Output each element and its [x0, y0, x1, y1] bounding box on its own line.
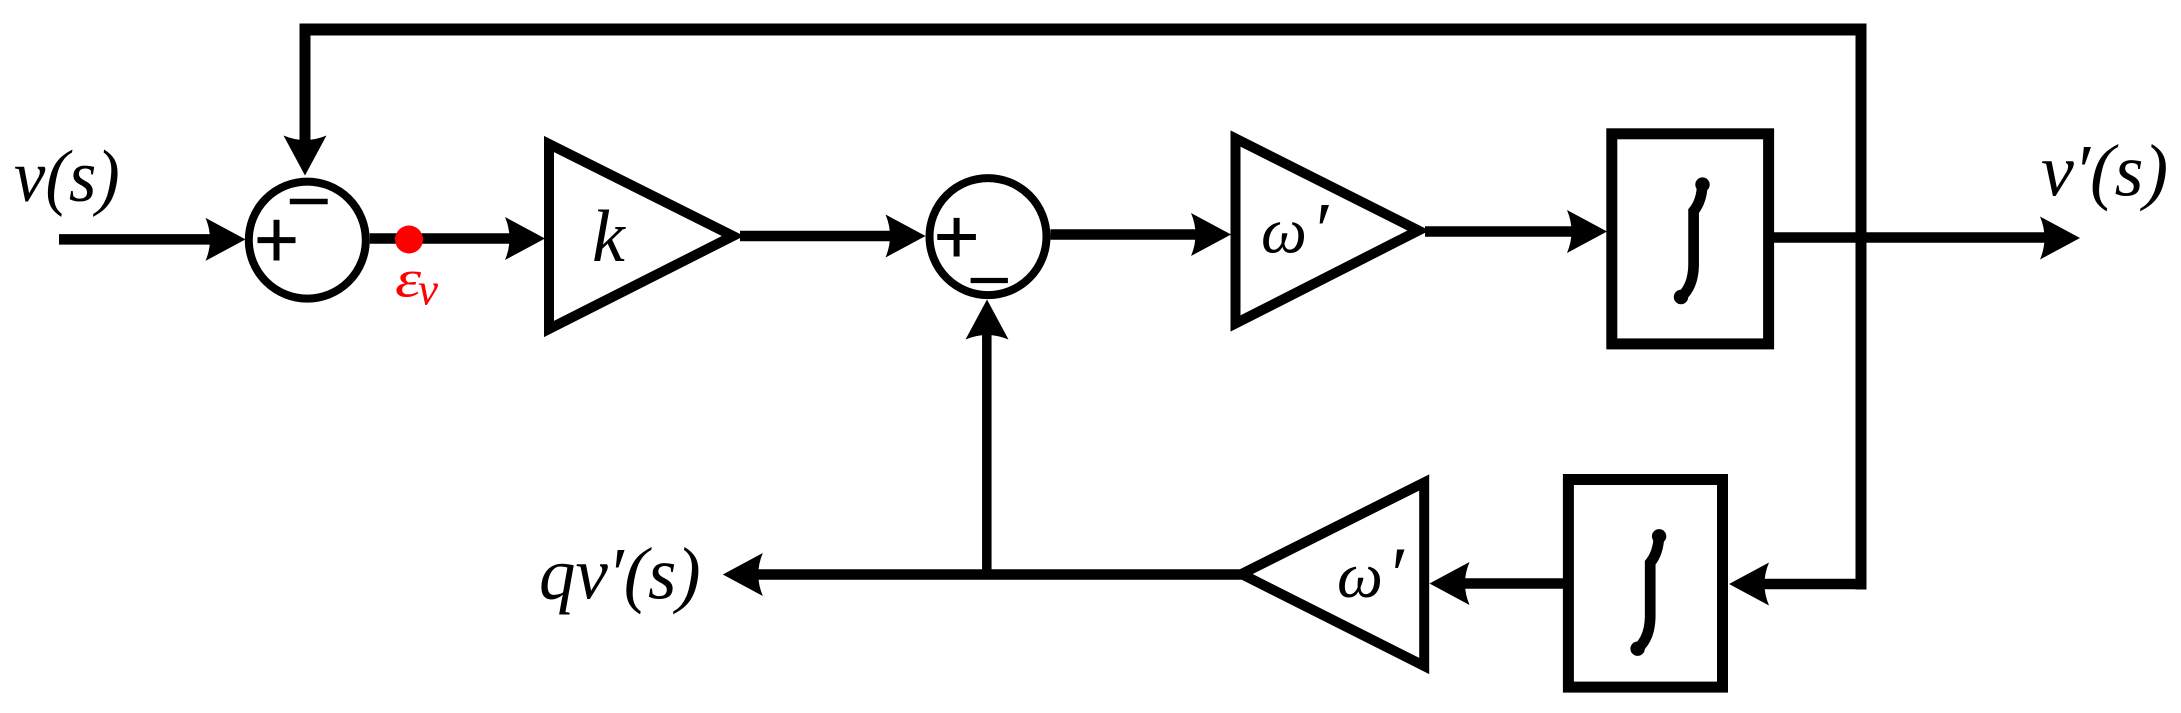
wire: S1 to gain k: [370, 217, 545, 260]
label qv'(s): [539, 533, 701, 615]
integrator block I2 (bottom): [1568, 480, 1722, 688]
integrator block I1 (top): [1612, 134, 1769, 344]
label epsilon_v (red): [395, 250, 438, 315]
gain block omega' (triangle, bottom, left-pointing): [1242, 483, 1425, 667]
wire: omega' to integrator I1: [1425, 210, 1607, 253]
wire: lower branch to qv'(s) output: [723, 553, 1242, 596]
wire: feedback down-arrow into S1 top: [284, 30, 327, 176]
summer S1 (+,-): [249, 182, 366, 299]
svg-text:k: k: [592, 196, 626, 278]
wire: top feedback horizontal: [300, 24, 1867, 36]
svg-text:′: ′: [1311, 187, 1330, 274]
wire: branch up into S2 bottom: [966, 300, 1009, 575]
svg-text:v(s): v(s): [14, 135, 120, 217]
wire: S2 to gain w': [1051, 213, 1232, 256]
summer S2 (+,-): [930, 178, 1047, 295]
svg-text:v′(s): v′(s): [2041, 131, 2168, 213]
svg-text:v: v: [418, 265, 438, 315]
wire: I1 to output v'(s): [1774, 217, 2080, 260]
svg-text:′: ′: [1387, 531, 1406, 618]
S1 plus sign: [258, 220, 296, 261]
svg-text:qv′(s): qv′(s): [539, 533, 701, 615]
wire: k to summer S2: [740, 215, 926, 258]
wire: right feedback vertical: [1856, 24, 1867, 590]
wire: input into summer S1: [59, 218, 246, 261]
node: error signal red dot: [395, 226, 423, 254]
gain block omega' (triangle, top): [1236, 139, 1419, 324]
gain block k (triangle): [549, 144, 733, 329]
S2 plus sign: [937, 218, 976, 257]
svg-text:ω: ω: [1261, 195, 1307, 267]
label integral sign I2: [1630, 529, 1666, 656]
wire: I2 to gain w' (lower): [1430, 562, 1564, 605]
wire: feedback to integrator I2 (lower right): [1729, 563, 1867, 606]
S2 minus sign: [971, 278, 1008, 283]
label v(s) input: [14, 135, 120, 217]
label integral sign I1: [1674, 177, 1710, 304]
svg-text:ω: ω: [1337, 540, 1383, 612]
S1 minus sign: [290, 199, 328, 205]
